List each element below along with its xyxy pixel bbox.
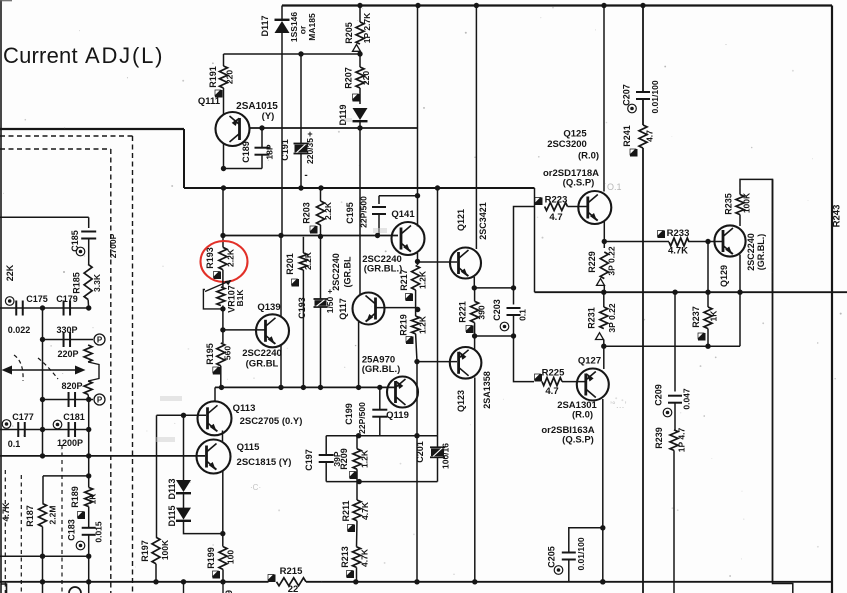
svg-text:R199: R199 — [206, 547, 216, 569]
svg-text:2SC1815 (Y): 2SC1815 (Y) — [237, 457, 292, 468]
capacitor 220P — [63, 332, 65, 347]
svg-text:P: P — [97, 336, 103, 345]
wire C191 branch — [300, 54, 302, 145]
wire Q125 emitter — [603, 221, 605, 248]
node x417 y195.7 — [415, 193, 420, 198]
wire R195 bottom — [220, 366, 222, 388]
marker R241 — [630, 149, 638, 157]
svg-text:D119: D119 — [338, 104, 348, 125]
svg-text:C201: C201 — [415, 441, 425, 463]
svg-text:2SC2240: 2SC2240 — [746, 233, 756, 271]
capacitor C191 — [294, 143, 309, 145]
svg-text:Q113: Q113 — [233, 403, 256, 414]
wire C197 left — [325, 436, 327, 455]
thermistor lower zigzag — [84, 381, 92, 395]
svg-text:(Y): (Y) — [262, 111, 275, 122]
resistor R221 — [474, 288, 476, 301]
node bus2 x156 — [153, 579, 158, 584]
svg-text:0.015: 0.015 — [94, 521, 104, 543]
wire R199 bottom — [222, 569, 224, 581]
node x320 y235.5 — [318, 234, 323, 239]
resistor R203 — [317, 201, 325, 225]
wire H3 y128 — [250, 127, 418, 129]
node top bus x418 — [415, 3, 420, 8]
svg-text:R233: R233 — [667, 228, 690, 239]
wire H14 y387.4 — [215, 386, 397, 388]
node bus2 x183 — [181, 579, 186, 584]
marker R209 — [350, 472, 358, 480]
resistor R201 — [299, 253, 307, 270]
svg-text:R229: R229 — [587, 251, 597, 273]
wire C193 line — [320, 237, 322, 299]
svg-text:R225: R225 — [542, 368, 565, 379]
resistor R233 — [669, 238, 689, 246]
wire R191-Q111 — [223, 88, 225, 115]
svg-text:100K: 100K — [742, 192, 752, 213]
capacitor C189 — [261, 128, 263, 147]
wire R207-D119 — [359, 88, 361, 104]
svg-text:R189: R189 — [70, 486, 80, 508]
marker R207 — [353, 94, 361, 102]
wire Q111col-R193 — [222, 188, 224, 247]
circmark C175 — [5, 297, 14, 306]
svg-text:R243: R243 — [832, 205, 843, 228]
node R237 bottom — [705, 344, 710, 349]
svg-text:R215: R215 — [280, 566, 303, 577]
node D x42 — [40, 427, 45, 432]
partial glyph D — [69, 587, 81, 593]
svg-text:C193: C193 — [297, 297, 307, 319]
svg-text:1K: 1K — [709, 310, 719, 322]
svg-text:1P 2.7K: 1P 2.7K — [362, 12, 372, 43]
node x321 y387.4 — [318, 385, 323, 390]
wire H5 y188 — [184, 187, 535, 189]
svg-text:2700P: 2700P — [108, 233, 118, 258]
svg-text:·C·: ·C· — [250, 483, 261, 492]
wire A y308 — [0, 307, 89, 309]
node C189 top — [259, 125, 264, 130]
wire Q113 collector — [214, 387, 216, 402]
marker R203 — [310, 226, 318, 234]
dashed box inner top — [0, 148, 111, 150]
node x281 y387.4 — [278, 385, 283, 390]
VR107 wiper arrow — [205, 281, 231, 292]
marker R223 — [535, 198, 543, 206]
resistor R207 — [356, 67, 364, 88]
circmark C205 — [554, 566, 563, 575]
capacitor C197 — [319, 454, 334, 456]
svg-text:4.7: 4.7 — [545, 386, 558, 397]
capacitor C185 — [81, 231, 96, 233]
capacitor C175 — [15, 301, 17, 316]
node x222 y387.4 — [219, 385, 224, 390]
svg-text:4.7K: 4.7K — [668, 246, 688, 257]
node x417 bus — [414, 579, 419, 584]
wire Q141 collector line — [417, 6, 419, 227]
marker R219 — [406, 337, 414, 345]
svg-text:4.7K: 4.7K — [1, 502, 11, 522]
wire R231 bottom — [603, 340, 605, 347]
capacitor C207 — [636, 91, 650, 93]
wire Q127 collector — [603, 346, 605, 369]
node top bus x643 — [640, 3, 645, 8]
wire R221 bottom — [474, 323, 476, 336]
wire H11 y336 — [475, 335, 514, 337]
svg-text:(GR.BL.): (GR.BL.) — [756, 234, 766, 271]
circmark C207 — [628, 104, 637, 113]
svg-text:C175: C175 — [26, 294, 48, 304]
fusible marker R231 — [596, 333, 604, 340]
capacitor 820P — [68, 392, 70, 407]
node bus2 x602 — [600, 579, 605, 584]
node A x42 — [40, 305, 45, 310]
node x223 y235.5 — [220, 233, 225, 238]
node x223 y188 — [221, 185, 226, 190]
wire D113-D115 — [183, 493, 185, 509]
wire H18 y475.9 — [43, 475, 89, 477]
wire Q113-Q115 — [222, 431, 224, 442]
partial glyph 7 — [1, 584, 7, 593]
svg-text:Q119: Q119 — [386, 410, 409, 421]
resistor R219 — [412, 316, 420, 334]
capacitor C205 — [562, 552, 576, 554]
wire H6 y235.5 — [223, 235, 398, 237]
svg-text:100K: 100K — [160, 539, 170, 560]
wire R201 bottom — [302, 270, 304, 387]
marker R237 — [698, 333, 706, 341]
wire R197 bottom — [155, 564, 157, 582]
node Q111 collector — [221, 166, 226, 171]
node x474 y287.9 — [472, 285, 477, 290]
circmark C185 — [76, 247, 85, 256]
fusible marker R205 — [353, 45, 361, 52]
transistor Q115 — [197, 440, 231, 474]
wire R225-Q127 base — [562, 381, 585, 383]
marker R215 — [268, 575, 276, 583]
svg-text:Q129: Q129 — [719, 265, 729, 287]
diode D113 — [176, 480, 191, 492]
svg-text:2SA1358: 2SA1358 — [482, 371, 492, 409]
node bus x708 — [705, 290, 710, 295]
svg-text:1.2K: 1.2K — [418, 315, 428, 334]
wire R211-R213 — [356, 521, 359, 547]
wire Q139 base — [223, 329, 265, 331]
svg-text:C207: C207 — [622, 84, 632, 106]
svg-text:R209: R209 — [339, 448, 349, 470]
node x437 y188 — [435, 185, 440, 190]
svg-text:or: or — [298, 25, 308, 34]
scan left border — [0, 0, 2, 593]
node R221 bottom — [472, 333, 477, 338]
svg-text:C203: C203 — [492, 299, 502, 321]
svg-text:R187: R187 — [25, 505, 35, 527]
svg-text:Q125: Q125 — [563, 129, 587, 140]
node x303 y387.4 — [301, 385, 306, 390]
svg-text:C209: C209 — [654, 384, 664, 406]
node x379 y387.4 — [377, 385, 382, 390]
thermistor jog — [88, 362, 99, 381]
wire stub below x223 — [222, 582, 224, 593]
svg-text:220: 220 — [225, 70, 235, 84]
node diode bottom junction — [220, 531, 225, 536]
wire H y481.6 — [326, 481, 437, 483]
svg-text:0.047: 0.047 — [682, 388, 692, 410]
svg-text:0.1: 0.1 — [518, 309, 528, 321]
resistor R209 — [356, 436, 358, 449]
wire R197 top — [156, 415, 158, 537]
wire right edge vertical — [831, 6, 833, 593]
svg-text:R219: R219 — [399, 314, 409, 336]
svg-text:R193: R193 — [205, 247, 215, 269]
svg-text:R195: R195 — [205, 343, 215, 365]
node Q125 emitter — [602, 239, 607, 244]
node Q127 emitter bus — [600, 579, 605, 584]
node bus2 x88 — [86, 579, 91, 584]
wire V x42 — [42, 308, 44, 456]
dashed gang line a — [4, 470, 6, 593]
wire R235 bottom — [739, 215, 741, 226]
svg-text:R201: R201 — [285, 253, 295, 275]
node x88 y475.9 — [86, 473, 91, 478]
resistor R231 — [603, 292, 605, 307]
wire Q139 emitter — [280, 345, 282, 388]
svg-text:C181: C181 — [63, 412, 85, 422]
svg-text:R213: R213 — [340, 546, 350, 568]
smudge left of Q115 — [155, 437, 175, 442]
node x301 y54 — [298, 51, 303, 56]
wire H7 y262 — [418, 261, 458, 263]
svg-text:R185: R185 — [72, 272, 82, 294]
thermistor upper zigzag — [84, 345, 92, 362]
circmark C183 — [76, 541, 85, 550]
wire R217-R219 — [415, 290, 417, 316]
node D113 top — [181, 413, 186, 418]
node Q141 emitter junction — [415, 259, 420, 264]
wire V x88 mid — [88, 400, 90, 488]
node x358.6 y435.7 — [356, 433, 361, 438]
marker R213 — [347, 571, 355, 579]
svg-text:2SC2705 (0.Y): 2SC2705 (0.Y) — [240, 416, 303, 427]
wire H17 y455.9 — [0, 455, 205, 457]
node C203 bottom — [511, 333, 516, 338]
node VR107 bottom — [220, 306, 225, 311]
svg-text:R205: R205 — [344, 22, 354, 44]
svg-text:0.1: 0.1 — [8, 439, 21, 449]
wire Q121 collector — [475, 6, 477, 250]
scan speckle noise — [540, 17, 541, 18]
node x360 y128 — [357, 125, 362, 130]
node C x88 — [86, 397, 91, 402]
node top bus x604 — [601, 3, 606, 8]
wire Q125 collector — [603, 6, 605, 192]
wire zig bottom — [87, 395, 90, 400]
resistor R199 — [219, 547, 227, 570]
node C x42 — [40, 397, 45, 402]
smudge left of Q113 — [160, 396, 182, 401]
resistor R197 — [152, 537, 160, 564]
resistor R239 — [670, 430, 678, 451]
resistor R211 — [356, 482, 358, 500]
node x377 y235.5 — [375, 233, 380, 238]
node x321 y188 — [318, 185, 323, 190]
wire R229 bottom — [603, 286, 605, 293]
svg-text:22K: 22K — [5, 264, 15, 281]
svg-text:R235: R235 — [724, 193, 734, 215]
svg-text:2SC2240: 2SC2240 — [242, 348, 282, 359]
resistor R193 — [219, 247, 227, 269]
resistor R215 — [277, 578, 307, 586]
svg-text:(R.0): (R.0) — [572, 410, 593, 421]
circmark C209 — [663, 408, 672, 417]
node Q117 base-R219 — [415, 307, 420, 312]
resistor R195 — [217, 343, 225, 366]
dashed box outer top — [0, 135, 133, 137]
node bus x675 — [672, 290, 677, 295]
annotation red circle — [201, 241, 248, 282]
fusible marker R229 — [597, 279, 605, 286]
svg-text:2.2K: 2.2K — [323, 201, 333, 220]
diode D117 — [275, 21, 290, 33]
wire H4 y129 — [0, 128, 184, 130]
svg-text:100: 100 — [226, 550, 236, 564]
svg-text:R211: R211 — [341, 500, 351, 521]
svg-text:Q121: Q121 — [456, 209, 466, 231]
transistor Q127 — [577, 369, 609, 401]
wire R233-Q129 — [689, 241, 723, 243]
svg-text:R203: R203 — [302, 202, 312, 224]
wire R201 top — [302, 237, 304, 253]
node x359 y481.6 — [357, 479, 362, 484]
resistor R205 — [356, 22, 364, 44]
wire mid bus y292.2 — [535, 291, 847, 293]
wire C199 top — [379, 387, 381, 409]
svg-text:Q117: Q117 — [338, 298, 348, 320]
marker R233 — [658, 231, 666, 239]
node x42 y556 — [40, 554, 45, 559]
smudge near D117 — [344, 118, 352, 122]
node Q123 emitter bus — [472, 579, 477, 584]
resistor R217 — [412, 266, 420, 291]
wire Q127 emitter — [602, 399, 604, 582]
wire R223-Q125 base — [568, 206, 588, 208]
wire R233 left — [604, 241, 669, 243]
dashed box outer right — [132, 136, 134, 593]
tuning dashed arc left — [14, 355, 23, 381]
wire R225 left — [514, 336, 535, 382]
svg-text:2SC3200: 2SC3200 — [547, 139, 587, 150]
svg-text:(GR.BL: (GR.BL — [246, 359, 279, 370]
resistor R225 — [542, 378, 562, 386]
wire H19 y556.2 — [0, 555, 89, 557]
wire R193-VR107 — [222, 270, 224, 287]
wire bottom bus left — [0, 581, 269, 583]
node x358 y387.4 — [356, 385, 361, 390]
marker R225 — [535, 374, 543, 382]
svg-text:3P 0.22: 3P 0.22 — [607, 246, 617, 275]
wire C185 column top — [88, 217, 90, 228]
svg-text:ADJ(L): ADJ(L) — [85, 43, 164, 68]
wire C y399.5 — [43, 399, 94, 401]
wire Q117 emitter — [358, 322, 360, 387]
svg-text:2.2K: 2.2K — [226, 248, 236, 267]
wire x772 below bus — [773, 582, 793, 593]
node x88 y455.9 — [86, 453, 91, 458]
svg-text:P: P — [97, 396, 103, 405]
svg-text:Current: Current — [3, 43, 78, 68]
node A x88 — [86, 305, 91, 310]
wire Q117 base — [377, 307, 419, 309]
svg-text:820P: 820P — [61, 381, 82, 391]
svg-text:’°…’: ’°…’ — [610, 400, 627, 410]
marker R201 — [292, 279, 300, 287]
node top bus x476 — [474, 3, 479, 8]
svg-text:C197: C197 — [304, 449, 314, 471]
circmark C203 — [500, 322, 509, 331]
resistor R235 — [736, 195, 744, 215]
wire loop right side — [739, 292, 741, 346]
capacitor C177 — [17, 422, 19, 437]
wire D113 top — [183, 415, 185, 481]
node B x42 — [40, 337, 45, 342]
svg-text:4.7: 4.7 — [645, 130, 655, 142]
svg-text:Q141: Q141 — [391, 209, 415, 220]
wire H y346.2 — [604, 345, 740, 347]
svg-text:R231: R231 — [587, 307, 597, 329]
capacitor C201 — [437, 436, 439, 448]
wire R235 top loop — [740, 179, 773, 292]
svg-text:560: 560 — [223, 346, 233, 360]
wire R219 bottom — [416, 334, 417, 362]
svg-text:Q111: Q111 — [198, 96, 221, 107]
svg-text:Q127: Q127 — [578, 356, 601, 367]
wire R203 bottom — [320, 225, 322, 237]
svg-text:˙O.1: ˙O.1 — [604, 182, 622, 192]
resistor R187 — [39, 504, 47, 527]
svg-text:C191: C191 — [280, 139, 290, 161]
node R231 bottom — [601, 344, 606, 349]
resistor R189 — [85, 487, 93, 506]
tuning arrow — [6, 369, 80, 371]
svg-text:4.7K: 4.7K — [360, 501, 370, 520]
transistor Q129 — [714, 225, 745, 256]
svg-text:C183: C183 — [67, 519, 77, 541]
wire C207 column — [642, 6, 644, 92]
wire H2 y54 — [224, 53, 361, 55]
resistor R241 — [639, 125, 647, 148]
svg-text:D117: D117 — [260, 15, 270, 36]
pmark lower — [94, 394, 105, 405]
resistor R213 — [353, 547, 361, 568]
node bus x740 — [737, 290, 742, 295]
svg-text:Q123: Q123 — [456, 390, 466, 412]
svg-text:R197: R197 — [140, 540, 150, 562]
svg-text:220: 220 — [361, 71, 371, 85]
node x360 y54 — [357, 51, 362, 56]
wire D115 bottom — [184, 521, 223, 534]
wire C195 top link — [379, 195, 418, 197]
wire R237 bottom — [707, 329, 709, 347]
svg-text:R239: R239 — [654, 427, 664, 449]
capacitor C203 — [513, 288, 515, 305]
wire D y429.5 — [0, 429, 89, 431]
svg-text:3P 0.22: 3P 0.22 — [607, 303, 617, 332]
node bus2 x223 — [220, 579, 225, 584]
wire R223 riser — [514, 207, 535, 288]
svg-text:220P: 220P — [57, 349, 78, 359]
wire bottom bus right — [306, 581, 832, 583]
marker R191 — [215, 90, 223, 98]
wire Q115 emitter — [222, 470, 224, 547]
